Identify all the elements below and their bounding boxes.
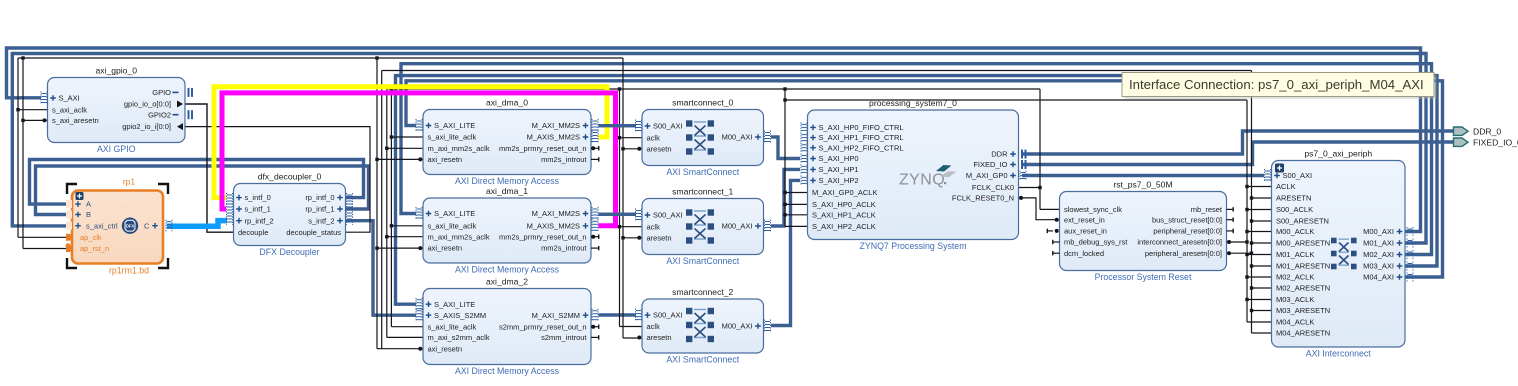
svg-text:DDR: DDR bbox=[991, 150, 1008, 159]
svg-text:dfx_decoupler_0: dfx_decoupler_0 bbox=[258, 172, 322, 182]
svg-text:aresetn: aresetn bbox=[647, 233, 672, 242]
svg-text:mm2s_prmry_reset_out_n: mm2s_prmry_reset_out_n bbox=[499, 144, 587, 153]
svg-text:M03_ACLK: M03_ACLK bbox=[1276, 295, 1314, 304]
svg-text:S00_AXI: S00_AXI bbox=[653, 122, 683, 131]
svg-text:m_axi_mm2s_aclk: m_axi_mm2s_aclk bbox=[428, 232, 490, 241]
block axi_dma_2 bbox=[423, 277, 591, 377]
svg-text:S_AXI_HP0_FIFO_CTRL: S_AXI_HP0_FIFO_CTRL bbox=[819, 123, 904, 132]
svg-text:axi_dma_1: axi_dma_1 bbox=[486, 186, 528, 196]
svg-text:AXI Direct Memory Access: AXI Direct Memory Access bbox=[455, 265, 560, 275]
svg-text:S_AXI_HP1_FIFO_CTRL: S_AXI_HP1_FIFO_CTRL bbox=[819, 133, 904, 142]
external port FIXED_IO_0 bbox=[1454, 138, 1469, 146]
wire reset vertical periph aresetn bbox=[1252, 71, 1272, 334]
svg-text:GPIO: GPIO bbox=[152, 88, 171, 97]
svg-text:s_axi_lite_aclk: s_axi_lite_aclk bbox=[428, 133, 477, 142]
rp1 C interface mark bbox=[166, 220, 172, 232]
icon smartconnect_2 crossbar bbox=[686, 308, 714, 342]
wire clock vertical smartconnect column bbox=[620, 89, 643, 327]
wire net smartconnect_2 M00_AXI to S_AXI_HP2 bbox=[771, 180, 800, 325]
svg-text:M00_AXI: M00_AXI bbox=[722, 222, 753, 231]
wire highlighted cyan net rp1 C to dfx rp_intf_2 bbox=[167, 221, 227, 227]
svg-text:processing_system7_0: processing_system7_0 bbox=[869, 98, 957, 108]
svg-text:s_axi_aresetn: s_axi_aresetn bbox=[52, 116, 99, 125]
svg-text:peripheral_aresetn[0:0]: peripheral_aresetn[0:0] bbox=[1145, 249, 1222, 258]
block rst_ps7_0_50M bbox=[1060, 180, 1227, 283]
svg-text:S_AXI_HP1: S_AXI_HP1 bbox=[819, 165, 859, 174]
wire net M_AXI_GP0 to S00_AXI bbox=[1022, 174, 1264, 177]
svg-text:M01_AXI: M01_AXI bbox=[1363, 239, 1394, 248]
svg-text:M_AXI_GP0_ACLK: M_AXI_GP0_ACLK bbox=[812, 188, 877, 197]
svg-text:gpio_io_o[0:0]: gpio_io_o[0:0] bbox=[124, 100, 171, 109]
svg-text:FIXED_IO_0: FIXED_IO_0 bbox=[1473, 137, 1518, 147]
icon smartconnect_1 crossbar bbox=[686, 209, 714, 243]
wire net DDR bbox=[1022, 131, 1454, 154]
block ps7_0_axi_periph bbox=[1272, 149, 1406, 359]
svg-text:rp_intf_2: rp_intf_2 bbox=[245, 216, 274, 225]
svg-text:m_axi_s2mm_aclk: m_axi_s2mm_aclk bbox=[428, 333, 490, 342]
svg-text:interconnect_aresetn[0:0]: interconnect_aresetn[0:0] bbox=[1137, 238, 1222, 247]
wire reset branch gpio aresetn / rp1 ap_rst_n bbox=[23, 58, 72, 249]
wire clock vertical ps aclk column bbox=[785, 89, 808, 226]
wire net dfx_decoupler_0 rp_intf_1 to rp1 B bbox=[36, 166, 369, 215]
svg-text:M00_ACLK: M00_ACLK bbox=[1276, 227, 1314, 236]
svg-text:s_axi_ctrl: s_axi_ctrl bbox=[86, 221, 118, 230]
svg-text:M00_AXI: M00_AXI bbox=[722, 133, 753, 142]
pin marks ps7_0_axi_periph bbox=[1265, 169, 1271, 182]
svg-text:s_axi_lite_aclk: s_axi_lite_aclk bbox=[428, 322, 477, 331]
block axi_dma_0 bbox=[423, 98, 591, 187]
svg-text:Interface Connection: ps7_0_ax: Interface Connection: ps7_0_axi_periph_M… bbox=[1129, 77, 1424, 92]
svg-text:s_intf_2: s_intf_2 bbox=[308, 216, 334, 225]
svg-text:s_intf_1: s_intf_1 bbox=[245, 205, 271, 214]
svg-text:smartconnect_1: smartconnect_1 bbox=[672, 187, 733, 197]
svg-text:bus_struct_reset[0:0]: bus_struct_reset[0:0] bbox=[1152, 215, 1222, 224]
pin marks axi_dma_2 bbox=[416, 298, 422, 311]
svg-text:AXI Direct Memory Access: AXI Direct Memory Access bbox=[455, 366, 560, 376]
svg-text:M02_ARESETN: M02_ARESETN bbox=[1276, 284, 1330, 293]
svg-text:m_axi_mm2s_aclk: m_axi_mm2s_aclk bbox=[428, 144, 490, 153]
svg-text:M00_ARESETN: M00_ARESETN bbox=[1276, 239, 1330, 248]
svg-text:M_AXI_S2MM: M_AXI_S2MM bbox=[532, 311, 580, 320]
svg-text:axi_dma_0: axi_dma_0 bbox=[486, 98, 528, 108]
svg-text:M00_AXI: M00_AXI bbox=[1363, 227, 1394, 236]
svg-text:S_AXI_LITE: S_AXI_LITE bbox=[434, 121, 475, 130]
wire clock trunk fclk_clk0 bbox=[387, 88, 1040, 90]
svg-text:rp_intf_1: rp_intf_1 bbox=[305, 205, 334, 214]
svg-text:slowest_sync_clk: slowest_sync_clk bbox=[1064, 205, 1122, 214]
svg-text:GPIO2: GPIO2 bbox=[148, 110, 171, 119]
block smartconnect_1 bbox=[642, 187, 764, 267]
svg-text:S_AXI_HP1_ACLK: S_AXI_HP1_ACLK bbox=[812, 210, 876, 219]
wire clock branch gpio aclk / rp1 ap_clk bbox=[18, 58, 72, 237]
block rp1 reconfigurable partition bbox=[66, 177, 163, 276]
svg-text:S00_AXI: S00_AXI bbox=[653, 311, 683, 320]
svg-text:ZYNQ7 Processing System: ZYNQ7 Processing System bbox=[859, 241, 966, 251]
svg-text:aclk: aclk bbox=[647, 222, 661, 231]
svg-text:AXI GPIO: AXI GPIO bbox=[97, 144, 136, 154]
svg-text:M01_ACLK: M01_ACLK bbox=[1276, 250, 1314, 259]
wire net axi_dma_2 M_AXI_S2MM to smartconnect_2 S00_AXI bbox=[599, 313, 637, 316]
svg-text:decouple: decouple bbox=[238, 228, 268, 237]
wire highlighted yellow net axi_dma_0 M_AXIS_MM2S to dfx s_intf_0 bbox=[214, 87, 607, 198]
icon smartconnect_0 crossbar bbox=[686, 120, 714, 154]
svg-text:M02_ACLK: M02_ACLK bbox=[1276, 273, 1314, 282]
svg-text:Processor System Reset: Processor System Reset bbox=[1095, 272, 1192, 282]
svg-text:M03_ARESETN: M03_ARESETN bbox=[1276, 306, 1330, 315]
svg-text:C: C bbox=[144, 221, 150, 230]
svg-text:A: A bbox=[86, 200, 91, 209]
svg-text:B: B bbox=[86, 210, 91, 219]
svg-text:M_AXIS_MM2S: M_AXIS_MM2S bbox=[527, 133, 580, 142]
svg-text:FIXED_IO: FIXED_IO bbox=[973, 160, 1007, 169]
svg-text:FCLK_RESET0_N: FCLK_RESET0_N bbox=[952, 194, 1014, 203]
wire net ps7_0_axi_periph_M03_AXI to axi_dma_2 S_AXI_LITE bbox=[396, 76, 1438, 305]
block axi_gpio_0 bbox=[48, 66, 186, 155]
svg-text:DFX Decoupler: DFX Decoupler bbox=[259, 247, 319, 257]
svg-text:axi_resetn: axi_resetn bbox=[428, 155, 463, 164]
wire clock vertical dma m_axi aclk bbox=[387, 89, 423, 337]
pin marks axi_dma_0 bbox=[416, 119, 422, 132]
svg-text:mb_reset: mb_reset bbox=[1191, 205, 1223, 214]
wire net axi_dma_0 M_AXI_MM2S to smartconnect_0 S00_AXI bbox=[599, 124, 637, 127]
svg-text:aux_reset_in: aux_reset_in bbox=[1064, 227, 1107, 236]
wire clock trunk right to periph bbox=[785, 100, 1272, 322]
wire dfx decouple_status to gpio2_io_i bbox=[185, 127, 370, 233]
svg-text:S00_AXI: S00_AXI bbox=[1283, 171, 1313, 180]
svg-text:AXI SmartConnect: AXI SmartConnect bbox=[666, 256, 739, 266]
svg-text:M02_AXI: M02_AXI bbox=[1363, 250, 1394, 259]
pin marks rst_ps7_0_50M bbox=[1055, 218, 1059, 222]
wire net FIXED_IO bbox=[1022, 142, 1454, 165]
pin marks smartconnect_1 bbox=[636, 209, 642, 222]
wire reset vertical dma column bbox=[377, 58, 423, 349]
external port DDR_0 bbox=[1454, 127, 1469, 135]
pin marks axi_dma_1 bbox=[416, 207, 422, 220]
logo ZYNQ bbox=[899, 165, 957, 189]
svg-text:S00_AXI: S00_AXI bbox=[653, 211, 683, 220]
svg-text:S00_ACLK: S00_ACLK bbox=[1276, 205, 1313, 214]
svg-text:smartconnect_0: smartconnect_0 bbox=[672, 98, 733, 108]
block axi_dma_1 bbox=[423, 186, 591, 275]
svg-text:S_AXIS_S2MM: S_AXIS_S2MM bbox=[434, 311, 486, 320]
rp1 DFX badge bbox=[122, 218, 138, 234]
pin marks axi_gpio_0 bbox=[41, 92, 47, 105]
wire gpio_io_o to dfx decouple bbox=[185, 104, 234, 232]
svg-text:s_axi_lite_aclk: s_axi_lite_aclk bbox=[428, 221, 477, 230]
svg-text:peripheral_reset[0:0]: peripheral_reset[0:0] bbox=[1153, 227, 1222, 236]
svg-text:AXI Direct Memory Access: AXI Direct Memory Access bbox=[455, 176, 560, 186]
svg-text:axi_dma_2: axi_dma_2 bbox=[486, 277, 528, 287]
block smartconnect_2 bbox=[642, 287, 764, 365]
svg-text:M03_AXI: M03_AXI bbox=[1363, 262, 1394, 271]
svg-text:mb_debug_sys_rst: mb_debug_sys_rst bbox=[1064, 238, 1128, 247]
svg-text:s2mm_introut: s2mm_introut bbox=[541, 333, 587, 342]
svg-text:ARESETN: ARESETN bbox=[1276, 194, 1311, 203]
wire highlighted magenta net axi_dma_1 M_AXIS_MM2S to dfx s_intf_1 bbox=[222, 93, 616, 226]
svg-text:s_intf_0: s_intf_0 bbox=[245, 193, 271, 202]
svg-text:s_axi_aclk: s_axi_aclk bbox=[52, 105, 87, 114]
svg-text:M_AXIS_MM2S: M_AXIS_MM2S bbox=[527, 221, 580, 230]
wire net dfx_decoupler_0 s_intf_2 to axi_dma_2 S_AXIS_S2MM bbox=[346, 221, 416, 316]
svg-text:ext_reset_in: ext_reset_in bbox=[1064, 215, 1105, 224]
svg-text:S00_ARESETN: S00_ARESETN bbox=[1276, 217, 1329, 226]
svg-text:FCLK_CLK0: FCLK_CLK0 bbox=[972, 183, 1014, 192]
svg-text:AXI SmartConnect: AXI SmartConnect bbox=[666, 355, 739, 365]
svg-text:M_AXI_GP0: M_AXI_GP0 bbox=[966, 171, 1008, 180]
icon ps7_0_axi_periph crossbar bbox=[1331, 238, 1357, 270]
wire rst interconnect_aresetn out bbox=[1227, 241, 1247, 243]
svg-text:decouple_status: decouple_status bbox=[286, 228, 341, 237]
wire net smartconnect_1 M00_AXI to S_AXI_HP1 bbox=[771, 169, 800, 226]
svg-text:S_AXI_HP2_FIFO_CTRL: S_AXI_HP2_FIFO_CTRL bbox=[819, 143, 904, 152]
svg-text:ap_clk: ap_clk bbox=[80, 233, 102, 242]
wire clock to rst slowest_sync_clk and FCLK_CLK0 bbox=[1018, 89, 1060, 209]
svg-text:rp1rm1.bd: rp1rm1.bd bbox=[109, 266, 149, 276]
svg-text:DFX: DFX bbox=[126, 223, 135, 228]
svg-text:aclk: aclk bbox=[647, 322, 661, 331]
wire reset vertical smartconnect column bbox=[623, 58, 642, 338]
svg-text:M_AXI_MM2S: M_AXI_MM2S bbox=[532, 209, 580, 218]
svg-text:AXI Interconnect: AXI Interconnect bbox=[1306, 349, 1372, 359]
pin marks smartconnect_0 bbox=[636, 120, 642, 133]
svg-text:axi_resetn: axi_resetn bbox=[428, 244, 463, 253]
wire reset trunk to periph bbox=[382, 71, 1252, 349]
wire net ps7_0_axi_periph_M01_AXI to rp1 s_axi_ctrl bbox=[12, 54, 1426, 244]
svg-text:axi_gpio_0: axi_gpio_0 bbox=[95, 66, 137, 76]
rp1 expand icon bbox=[76, 192, 84, 200]
svg-text:S_AXI_LITE: S_AXI_LITE bbox=[434, 300, 475, 309]
svg-text:M04_AXI: M04_AXI bbox=[1363, 273, 1394, 282]
wire FCLK_RESET0_N to ext_reset_in bbox=[1019, 198, 1060, 220]
wire clock vertical dma lite aclk bbox=[391, 89, 423, 327]
svg-text:rp1: rp1 bbox=[123, 177, 136, 187]
svg-text:mm2s_introut: mm2s_introut bbox=[541, 155, 587, 164]
svg-text:smartconnect_2: smartconnect_2 bbox=[672, 287, 733, 297]
wire net ps7_0_axi_periph_M00_AXI to axi_gpio_0 S_AXI bbox=[7, 48, 1421, 232]
svg-text:S_AXI_LITE: S_AXI_LITE bbox=[434, 209, 475, 218]
svg-text:s2mm_prmry_reset_out_n: s2mm_prmry_reset_out_n bbox=[499, 322, 587, 331]
svg-text:axi_resetn: axi_resetn bbox=[428, 344, 463, 353]
svg-text:rp_intf_0: rp_intf_0 bbox=[305, 193, 334, 202]
svg-text:M_AXI_MM2S: M_AXI_MM2S bbox=[532, 121, 580, 130]
wire net smartconnect_0 M00_AXI to S_AXI_HP0 bbox=[771, 137, 800, 159]
svg-text:S_AXI_HP2_ACLK: S_AXI_HP2_ACLK bbox=[812, 222, 876, 231]
svg-text:mm2s_introut: mm2s_introut bbox=[541, 244, 587, 253]
svg-text:M00_AXI: M00_AXI bbox=[722, 322, 753, 331]
wire net ps7_0_axi_periph_M02_AXI to axi_dma_1 S_AXI_LITE bbox=[401, 64, 1432, 255]
svg-text:mm2s_prmry_reset_out_n: mm2s_prmry_reset_out_n bbox=[499, 232, 587, 241]
block smartconnect_0 bbox=[642, 98, 764, 178]
svg-text:S_AXI: S_AXI bbox=[59, 94, 80, 103]
svg-text:M04_ARESETN: M04_ARESETN bbox=[1276, 329, 1330, 338]
block dfx_decoupler_0 bbox=[234, 172, 346, 258]
wire overdraw M_AXI_MM2S over highlights bbox=[599, 124, 637, 127]
tooltip Interface Connection bbox=[1122, 73, 1437, 100]
svg-text:S_AXI_HP2: S_AXI_HP2 bbox=[819, 176, 859, 185]
pin marks dfx_decoupler_0 bbox=[227, 193, 233, 225]
wire rst peripheral_aresetn out bbox=[1227, 252, 1252, 254]
svg-text:M04_ACLK: M04_ACLK bbox=[1276, 318, 1314, 327]
svg-text:dcm_locked: dcm_locked bbox=[1064, 249, 1104, 258]
wire net ps7_0_axi_periph_M04_AXI to axi_dma_0 S_AXI_LITE bbox=[406, 81, 1443, 277]
svg-text:aclk: aclk bbox=[647, 133, 661, 142]
svg-text:AXI SmartConnect: AXI SmartConnect bbox=[666, 167, 739, 177]
svg-text:S_AXI_HP0_ACLK: S_AXI_HP0_ACLK bbox=[812, 200, 876, 209]
svg-text:aresetn: aresetn bbox=[647, 144, 672, 153]
svg-text:gpio2_io_i[0:0]: gpio2_io_i[0:0] bbox=[122, 122, 171, 131]
svg-text:ZYNQ: ZYNQ bbox=[899, 172, 945, 189]
svg-text:ap_rst_n: ap_rst_n bbox=[80, 244, 109, 253]
pin marks processing_system7_0 bbox=[801, 122, 807, 132]
svg-text:aresetn: aresetn bbox=[647, 333, 672, 342]
wire net axi_dma_1 M_AXI_MM2S to smartconnect_1 S00_AXI bbox=[599, 213, 637, 216]
svg-text:ACLK: ACLK bbox=[1276, 182, 1296, 191]
wire reset trunk top bbox=[18, 57, 623, 59]
rp1 corner brackets bbox=[67, 184, 77, 194]
wire net dfx_decoupler_0 rp_intf_0 to rp1 A bbox=[30, 160, 364, 205]
pin marks smartconnect_2 bbox=[636, 309, 642, 322]
svg-text:DDR_0: DDR_0 bbox=[1473, 126, 1501, 136]
ps7_0_axi_periph expand icon bbox=[1275, 164, 1284, 173]
svg-text:ps7_0_axi_periph: ps7_0_axi_periph bbox=[1304, 149, 1372, 159]
svg-text:S_AXI_HP0: S_AXI_HP0 bbox=[819, 154, 859, 163]
block processing_system7_0 bbox=[808, 98, 1019, 251]
svg-text:rst_ps7_0_50M: rst_ps7_0_50M bbox=[1113, 180, 1172, 190]
svg-text:M01_ARESETN: M01_ARESETN bbox=[1276, 262, 1330, 271]
